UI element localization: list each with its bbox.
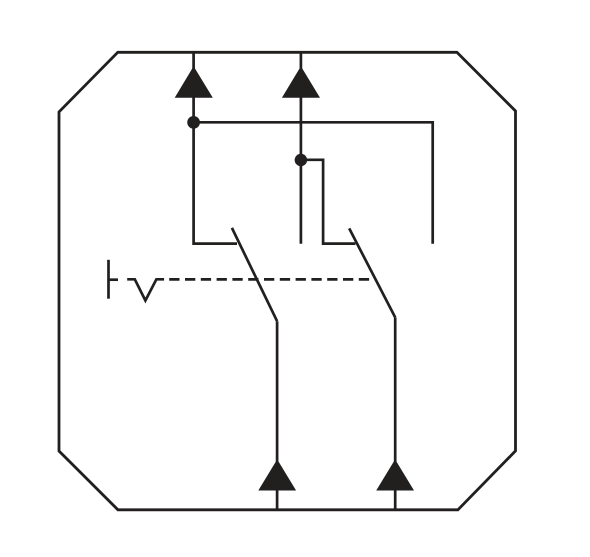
- actuator notch (v): [127, 279, 164, 300]
- actuator tick: [109, 278, 119, 281]
- wire S1 blade to bottom terminal 3: [276, 321, 279, 510]
- actuator lever stem: [107, 260, 110, 299]
- terminal arrow 3 (bottom left): [258, 459, 296, 490]
- switch S2 blade: [349, 228, 395, 317]
- wire S2 blade to bottom terminal 4: [394, 317, 397, 509]
- node B junction dot: [295, 154, 308, 167]
- terminal arrow 4 (bottom right): [376, 459, 414, 490]
- wire top terminal 1 down to switch S1 contact stub: [194, 52, 237, 243]
- terminal arrow 1 (top left): [175, 66, 213, 98]
- switch S1 blade: [232, 228, 277, 321]
- wire from node B to switch S2 contact stub: [301, 160, 356, 244]
- wire from node A across and down to right stub: [194, 122, 433, 243]
- node A junction dot: [187, 116, 200, 129]
- wire top terminal 2 vertical: [300, 52, 303, 243]
- device outline (octagon): [59, 52, 516, 510]
- terminal arrow 2 (top right): [282, 66, 320, 98]
- mechanical coupling dashed link: [169, 278, 375, 281]
